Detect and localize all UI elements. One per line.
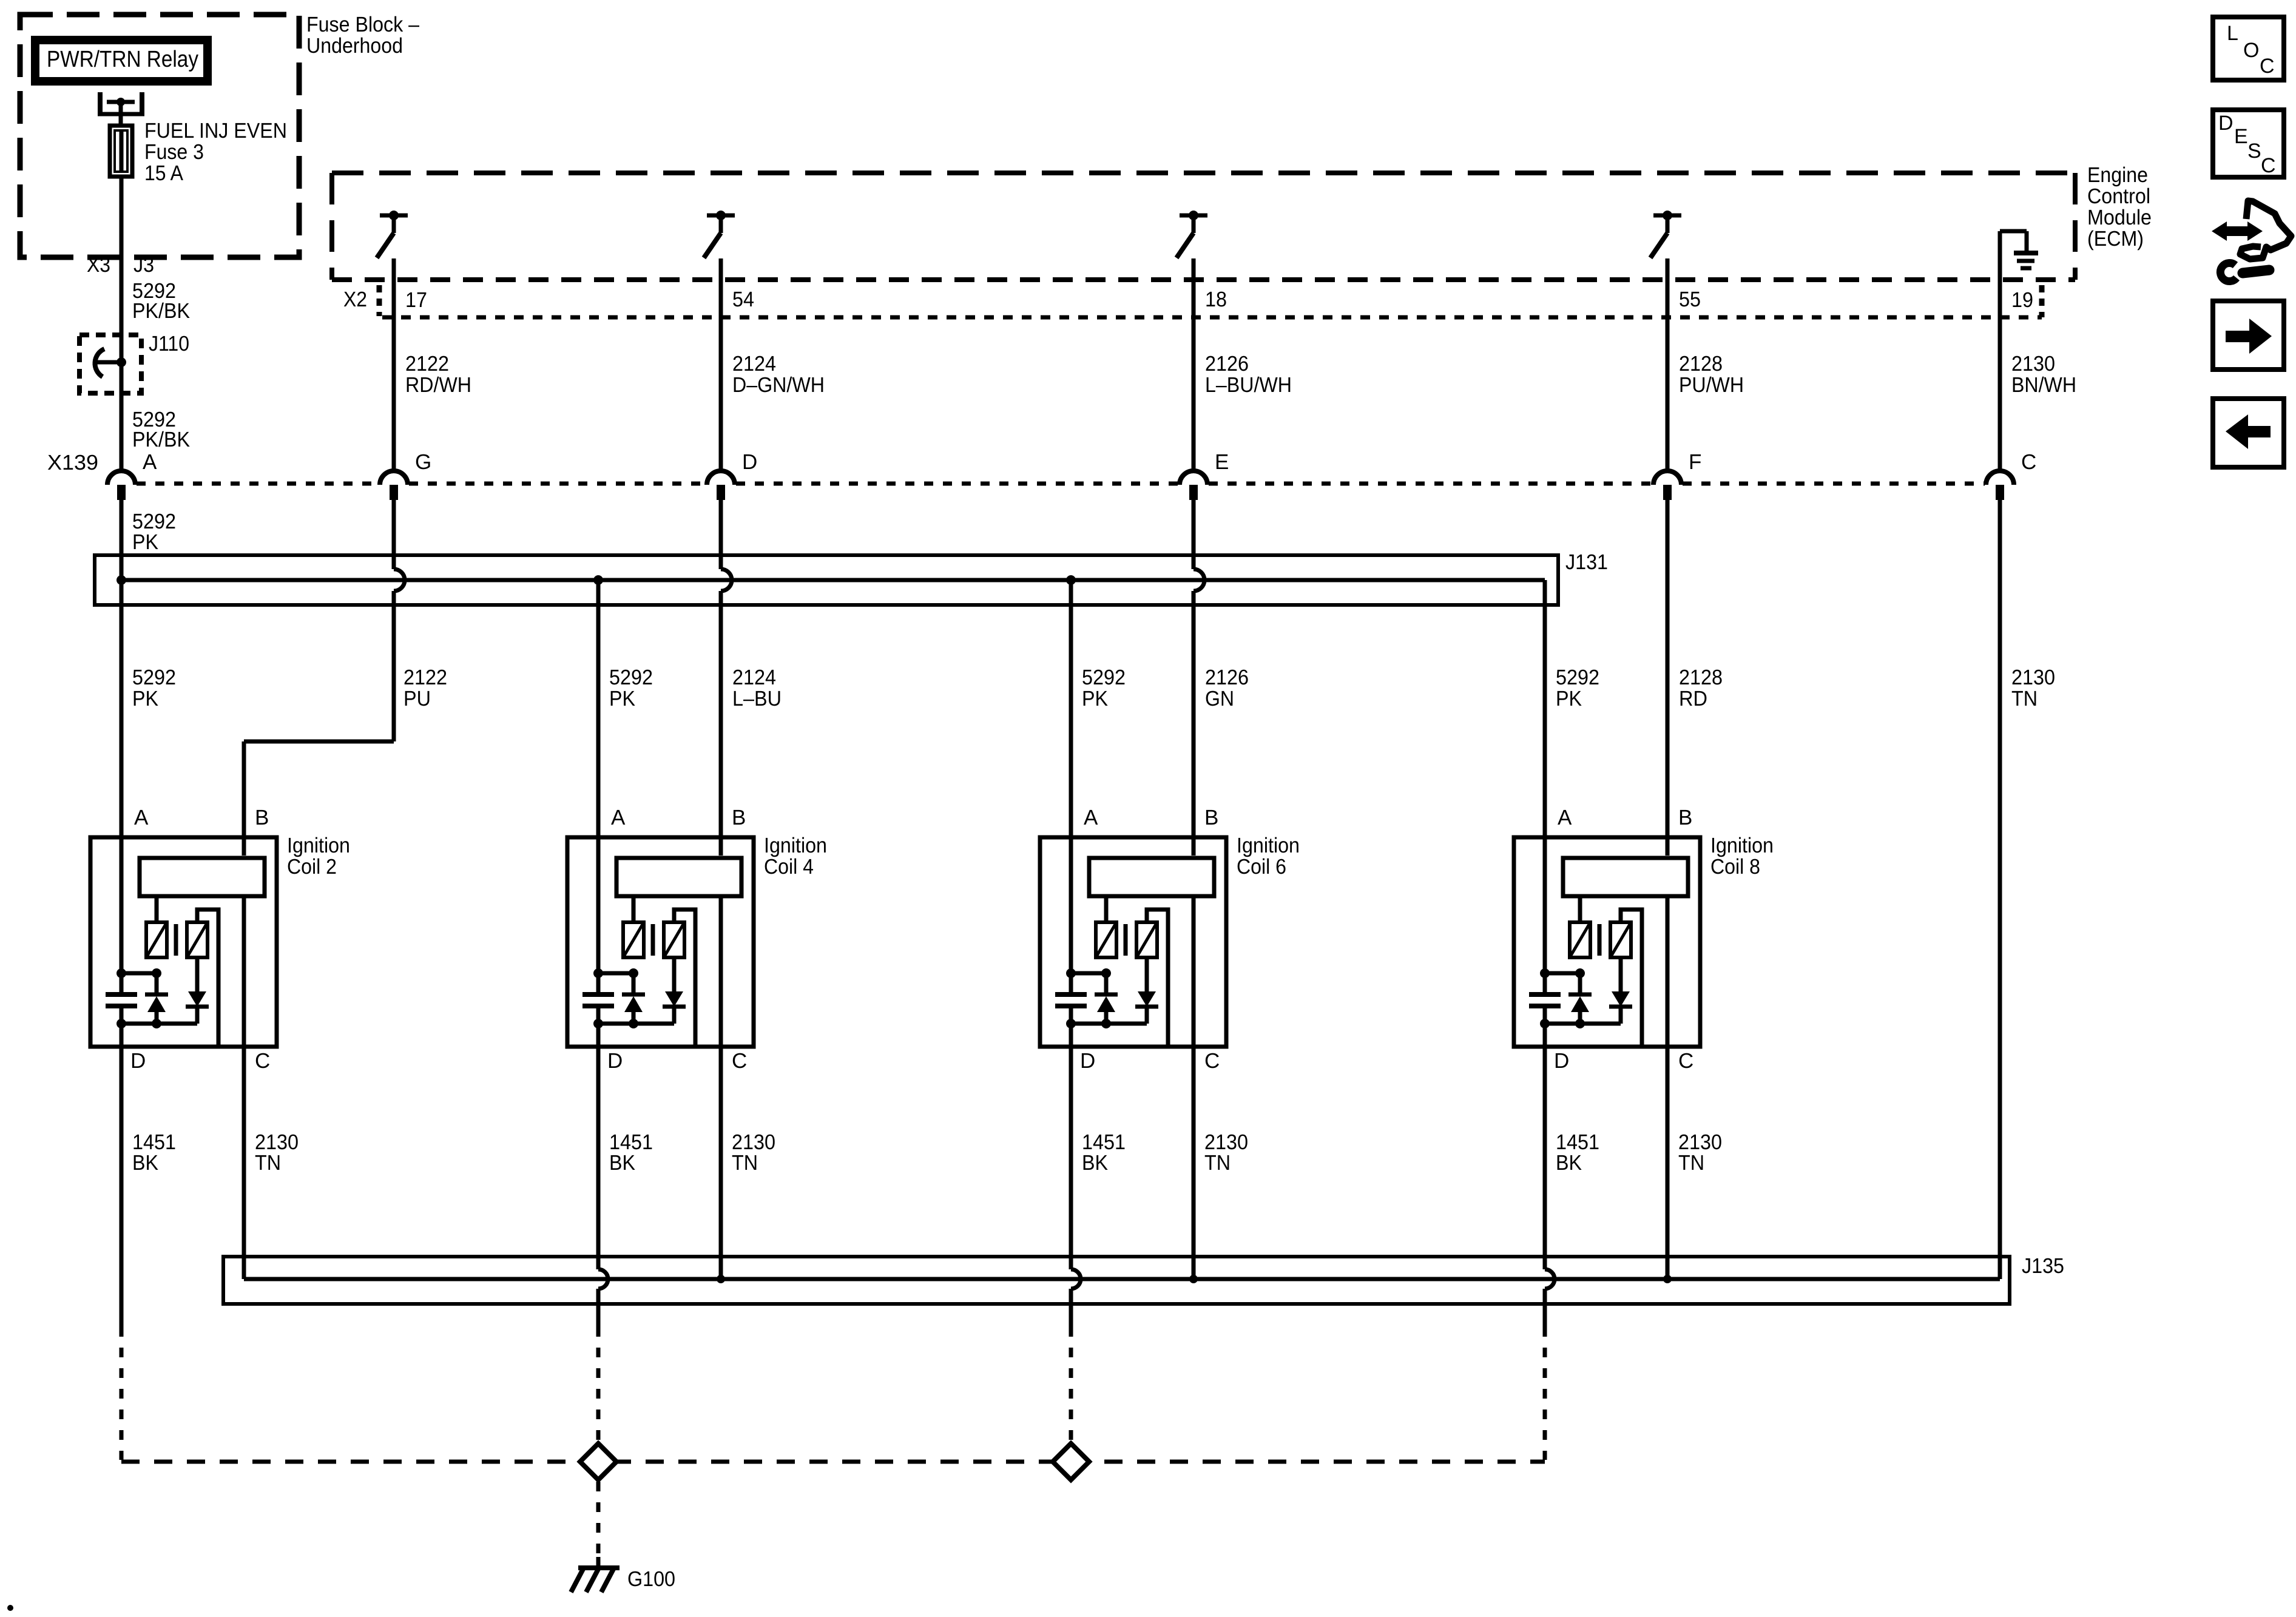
svg-text:C: C [2021, 450, 2036, 474]
svg-text:TN: TN [2011, 687, 2038, 711]
svg-text:C: C [1678, 1049, 1693, 1073]
svg-text:Coil 4: Coil 4 [764, 855, 814, 879]
svg-text:17: 17 [405, 288, 427, 312]
svg-text:J3: J3 [133, 253, 154, 277]
coil 4 pin B lead [719, 836, 723, 856]
coil 2 ignitor element left [146, 922, 167, 957]
icon box DESC [2213, 110, 2284, 177]
coil 6 ignitor element right [1136, 922, 1157, 957]
coil 6 primary winding rect [1089, 858, 1214, 896]
svg-text:55: 55 [1679, 288, 1701, 311]
wire 1451 BK coil6-D down with J135 hop [1069, 1048, 1073, 1269]
wire 2124 crossing J131 with hop [719, 500, 723, 569]
svg-text:PK/BK: PK/BK [132, 299, 190, 323]
coil 6 pin B lead [1192, 836, 1196, 856]
svg-text:L–BU/WH: L–BU/WH [1205, 373, 1292, 397]
coil 8 junction node row upper [1545, 971, 1580, 976]
splice pack J135 bus wire [244, 1277, 2000, 1281]
svg-text:Module: Module [2087, 206, 2152, 229]
node J131-coil2 feed [116, 575, 126, 585]
svg-text:PWR/TRN Relay: PWR/TRN Relay [47, 47, 198, 72]
coil 2 core bar [174, 924, 178, 956]
splice diamond at coil6 ground [1053, 1443, 1089, 1480]
wire 5292 PK X139-A through J131 to coil2-A [120, 500, 124, 836]
svg-text:A: A [611, 806, 626, 829]
svg-text:D: D [607, 1049, 623, 1073]
coil 4 pin C lead from winding [719, 898, 723, 1048]
node J110 junction [116, 357, 126, 367]
svg-text:X3: X3 [87, 253, 110, 277]
coil 4 core bar [651, 924, 655, 956]
svg-text:L: L [2227, 22, 2238, 45]
svg-text:2128: 2128 [1679, 352, 1723, 376]
ignition coil 6 box [1040, 837, 1226, 1047]
svg-text:C: C [1204, 1049, 1220, 1073]
coil 8 secondary loop to tower [1621, 910, 1642, 1047]
svg-text:2128: 2128 [1679, 666, 1723, 689]
svg-text:RD: RD [1679, 687, 1707, 711]
icon box back arrow [2213, 399, 2284, 467]
coil 8 pin D lead [1543, 1024, 1547, 1048]
svg-text:A: A [134, 806, 149, 829]
wire 1451 BK coil4-D down with J135 hop [596, 1048, 601, 1269]
wire 2128 RD X139-F to coil8-B [1666, 500, 1670, 836]
svg-text:FUEL INJ EVEN: FUEL INJ EVEN [144, 119, 287, 143]
dashed wire 1451 BK coil4-D to splice diamond [596, 1327, 601, 1442]
svg-text:TN: TN [1204, 1151, 1231, 1175]
coil 4 primary winding rect [616, 858, 741, 896]
svg-text:(ECM): (ECM) [2087, 227, 2144, 251]
svg-text:TN: TN [255, 1151, 281, 1175]
coil 2 bottom junction wire [121, 1022, 197, 1026]
svg-text:E: E [1215, 450, 1229, 474]
node J135-coil4 C [717, 1275, 725, 1283]
coil 2 pin A wire inside [120, 836, 124, 973]
coil 6 diode down (right) [1145, 959, 1149, 991]
ignition coil 2 box [90, 837, 277, 1047]
svg-text:C: C [2260, 55, 2275, 78]
coil 6 ignitor element left [1096, 922, 1116, 957]
coil 8 ignitor element left [1570, 922, 1590, 957]
svg-text:Ignition: Ignition [1237, 834, 1300, 857]
svg-text:PU/WH: PU/WH [1679, 373, 1744, 397]
svg-text:PK: PK [1556, 687, 1582, 711]
svg-text:J131: J131 [1565, 550, 1608, 574]
wire 1451 BK coil2-D down [120, 1048, 124, 1327]
wire 2128 PU/WH pin55 to X139-F [1666, 258, 1670, 470]
svg-text:5292: 5292 [1082, 666, 1126, 689]
svg-text:A: A [143, 450, 157, 474]
coil 2 primary winding rect [140, 858, 265, 896]
connector X139 terminal D [707, 471, 735, 485]
splice J110 dashed box [79, 335, 141, 393]
svg-text:F: F [1689, 450, 1701, 474]
ECM dashed box Engine Control Module [332, 170, 2075, 175]
svg-text:2130: 2130 [2011, 666, 2055, 689]
svg-text:TN: TN [1678, 1151, 1704, 1175]
icon box forward arrow [2213, 301, 2284, 370]
svg-text:54: 54 [732, 288, 754, 311]
svg-text:D: D [2218, 112, 2234, 135]
svg-text:E: E [2234, 125, 2248, 148]
svg-text:Fuse 3: Fuse 3 [144, 140, 204, 164]
node J131-coil6 feed [1066, 575, 1076, 585]
coil 6 secondary loop to tower [1147, 910, 1168, 1047]
coil 8 primary winding rect [1563, 858, 1688, 896]
node J135-coil8 C [1663, 1275, 1672, 1283]
coil 8 bottom junction wire [1545, 1022, 1621, 1026]
svg-text:A: A [1558, 806, 1572, 829]
svg-text:5292: 5292 [1556, 666, 1599, 689]
ECM output driver 54 switch symbol [707, 214, 735, 218]
svg-text:2124: 2124 [732, 666, 776, 689]
ECM internal ground symbol at pin 19 [2000, 229, 2027, 234]
svg-text:GN: GN [1205, 687, 1234, 711]
coil 2 secondary loop to tower [197, 910, 218, 1047]
coil 6 diode up (left) [1104, 973, 1109, 994]
splice J110 clip symbol [95, 349, 104, 377]
svg-text:D: D [1554, 1049, 1569, 1073]
svg-text:2124: 2124 [732, 352, 776, 376]
svg-text:J110: J110 [149, 332, 189, 356]
coil 8 pin C lead from winding [1666, 898, 1670, 1048]
ignition coil 8 box [1514, 837, 1700, 1047]
coil 2 winding to ignitor lead [155, 898, 159, 920]
svg-text:Coil 2: Coil 2 [287, 855, 337, 879]
svg-text:C: C [2261, 154, 2276, 177]
svg-text:15 A: 15 A [144, 161, 184, 185]
wire 2130 TN coil8-C to J135 [1666, 1048, 1670, 1279]
ECM output driver 55 switch symbol [1653, 214, 1681, 218]
svg-text:D: D [1080, 1049, 1095, 1073]
relay K1 PWR/TRN Relay box [35, 40, 208, 81]
coil 6 pin D lead [1069, 1024, 1073, 1048]
page period mark [7, 1605, 13, 1611]
ground symbol G100 [596, 1557, 601, 1568]
connector X139 terminal E [1180, 471, 1207, 485]
svg-text:D: D [742, 450, 757, 474]
svg-text:Ignition: Ignition [287, 834, 350, 857]
splice diamond at coil4 ground [580, 1443, 616, 1480]
ECM box bottom edge [332, 277, 2075, 282]
svg-text:TN: TN [732, 1151, 758, 1175]
dashed ground bus wire [121, 1460, 1545, 1464]
coil 4 diode down (right) [672, 959, 677, 991]
coil 6 pin A wire inside [1069, 836, 1073, 973]
wire 5292 PK J131 to coil6-A [1069, 580, 1073, 836]
connector X139 dotted line [137, 482, 379, 486]
connector X139 terminal A [107, 471, 135, 485]
wire 5292 PK J131 to coil8-A [1543, 607, 1547, 836]
ECM output driver 17 switch symbol [380, 214, 408, 218]
svg-text:C: C [255, 1049, 270, 1073]
svg-text:PK: PK [609, 687, 635, 711]
connector X139 terminal G [380, 471, 408, 485]
coil 8 diode down (right) [1619, 959, 1623, 991]
coil 8 core bar [1598, 924, 1602, 956]
coil 2 pin C lead from winding [242, 898, 246, 1048]
svg-text:X2: X2 [343, 288, 367, 311]
coil 2 diode up (left) [155, 973, 159, 994]
splice pack J135 box [223, 1257, 2010, 1304]
svg-text:J135: J135 [2022, 1254, 2064, 1278]
relay K1 contact symbol [98, 92, 103, 115]
coil 4 pin D lead [596, 1024, 601, 1048]
svg-text:PK: PK [1082, 687, 1108, 711]
coil 2 ignitor element right [187, 922, 208, 957]
X2 separator tick right [2039, 285, 2045, 317]
wire 2124 L-BU to coil4-B [719, 591, 723, 836]
fuse block - underhood dashed box [20, 15, 299, 257]
svg-text:D–GN/WH: D–GN/WH [732, 373, 825, 397]
fuse F3 FUEL INJ EVEN 15A [110, 126, 132, 177]
coil 8 capacitor [1529, 992, 1561, 997]
svg-text:Ignition: Ignition [764, 834, 827, 857]
wire 2126 GN to coil6-B [1192, 591, 1196, 836]
coil 6 capacitor [1055, 992, 1087, 997]
dashed wire to ground G100 [596, 1482, 601, 1557]
wire 2126 crossing J131 with hop [1192, 500, 1196, 569]
coil 6 bottom junction wire [1071, 1022, 1147, 1026]
svg-text:B: B [1204, 806, 1218, 829]
coil 8 pin B lead [1666, 836, 1670, 856]
svg-text:Coil 8: Coil 8 [1710, 855, 1760, 879]
coil 2 pin D lead [120, 1024, 124, 1048]
coil 6 junction node row upper [1071, 971, 1106, 976]
svg-text:B: B [732, 806, 746, 829]
splice pack J131 box [95, 555, 1558, 605]
connector X139 terminal C [1986, 471, 2014, 485]
coil 4 capacitor [582, 992, 614, 997]
coil 4 junction node row upper [598, 971, 633, 976]
svg-text:BN/WH: BN/WH [2011, 373, 2076, 397]
coil 8 pin A wire inside [1543, 836, 1547, 973]
ignition coil 4 box [567, 837, 754, 1047]
svg-text:PK: PK [132, 687, 158, 711]
svg-text:C: C [732, 1049, 747, 1073]
svg-text:18: 18 [1205, 288, 1227, 311]
coil 6 winding to ignitor lead [1104, 898, 1109, 920]
dashed wire 1451 BK coil8-D continued [1543, 1327, 1547, 1460]
wire 2130 BN/WH pin19 to X139-C [1998, 231, 2002, 470]
coil 8 winding to ignitor lead [1578, 898, 1582, 920]
wire 5292 PK/BK fuse to X139-A [120, 178, 124, 470]
coil 4 winding to ignitor lead [632, 898, 636, 920]
wire 2126 L-BU/WH pin18 to X139-E [1192, 258, 1196, 470]
wire 2122 PU jog to coil2-B [392, 591, 396, 741]
wire 2130 TN coil2-C to J135 [242, 1048, 246, 1279]
svg-text:B: B [1678, 806, 1692, 829]
node J135-coil6 C [1189, 1275, 1198, 1283]
svg-text:O: O [2243, 39, 2259, 62]
svg-text:Coil 6: Coil 6 [1237, 855, 1286, 879]
svg-text:5292: 5292 [132, 666, 176, 689]
X2 connector dotted line [382, 316, 2042, 320]
icon box LOC [2213, 17, 2284, 80]
svg-text:L–BU: L–BU [732, 687, 782, 711]
node J131-coil4 feed [593, 575, 603, 585]
wire 2130 TN coil6-C to J135 [1192, 1048, 1196, 1279]
svg-text:Ignition: Ignition [1710, 834, 1774, 857]
X2 separator tick left [377, 285, 382, 316]
wire 2130 TN coil4-C to J135 [719, 1048, 723, 1279]
coil 8 diode up (left) [1578, 973, 1582, 994]
dashed wire 1451 BK coil2-D continued [120, 1327, 124, 1460]
coil 2 capacitor [106, 992, 137, 997]
svg-text:2126: 2126 [1205, 352, 1249, 376]
coil 4 bottom junction wire [598, 1022, 674, 1026]
svg-text:Engine: Engine [2087, 163, 2148, 187]
svg-text:Control: Control [2087, 184, 2150, 208]
coil 2 diode down (right) [195, 959, 200, 991]
wire 1451 BK coil8-D down with J135 hop [1543, 1048, 1547, 1269]
svg-text:G100: G100 [627, 1567, 675, 1591]
coil 4 pin A wire inside [596, 836, 601, 973]
splice pack J131 bus wire [121, 578, 1545, 582]
svg-text:A: A [1084, 806, 1098, 829]
svg-text:X139: X139 [47, 451, 98, 474]
svg-text:5292: 5292 [609, 666, 653, 689]
svg-text:2122: 2122 [405, 352, 449, 376]
svg-text:BK: BK [132, 1151, 158, 1175]
svg-text:Fuse Block –: Fuse Block – [306, 13, 419, 36]
icon double arrow [2223, 226, 2251, 236]
svg-text:PK: PK [132, 530, 158, 554]
svg-text:RD/WH: RD/WH [405, 373, 471, 397]
ECM output driver 18 switch symbol [1180, 214, 1207, 218]
coil 8 ignitor element right [1610, 922, 1631, 957]
wire 2122 RD/WH pin17 to X139-G [392, 258, 396, 470]
wire 2130 TN X139-C down to J135 [1998, 500, 2002, 1279]
svg-text:2126: 2126 [1205, 666, 1249, 689]
icon wrench [2243, 270, 2269, 273]
dashed wire 1451 BK coil6-D to splice diamond [1069, 1327, 1073, 1442]
wire 2124 D-GN/WH pin54 to X139-D [719, 258, 723, 470]
coil 6 pin C lead from winding [1192, 898, 1196, 1048]
svg-text:BK: BK [1082, 1151, 1108, 1175]
coil 4 secondary loop to tower [674, 910, 695, 1047]
svg-text:BK: BK [1556, 1151, 1582, 1175]
icon vehicle outline with arrows and wrench [2240, 201, 2291, 259]
connector X139 terminal F [1653, 471, 1681, 485]
svg-text:PK/BK: PK/BK [132, 428, 190, 451]
svg-text:2122: 2122 [403, 666, 447, 689]
svg-text:D: D [130, 1049, 146, 1073]
svg-text:19: 19 [2011, 288, 2033, 312]
svg-text:Underhood: Underhood [306, 34, 403, 58]
coil 6 core bar [1124, 924, 1128, 956]
coil 2 junction node row upper [121, 971, 157, 976]
svg-text:PU: PU [403, 687, 431, 711]
svg-text:G: G [415, 450, 431, 474]
svg-text:S: S [2247, 140, 2261, 163]
wire 5292 PK J131 to coil4-A [596, 580, 601, 836]
coil 4 diode up (left) [632, 973, 636, 994]
svg-text:BK: BK [609, 1151, 635, 1175]
coil 4 ignitor element left [623, 922, 644, 957]
coil 4 ignitor element right [664, 922, 684, 957]
coil 2 pin B lead [242, 836, 246, 856]
svg-text:2130: 2130 [2011, 352, 2055, 376]
wire 2122 crossing J131 with hop [392, 500, 396, 569]
svg-text:B: B [255, 806, 269, 829]
